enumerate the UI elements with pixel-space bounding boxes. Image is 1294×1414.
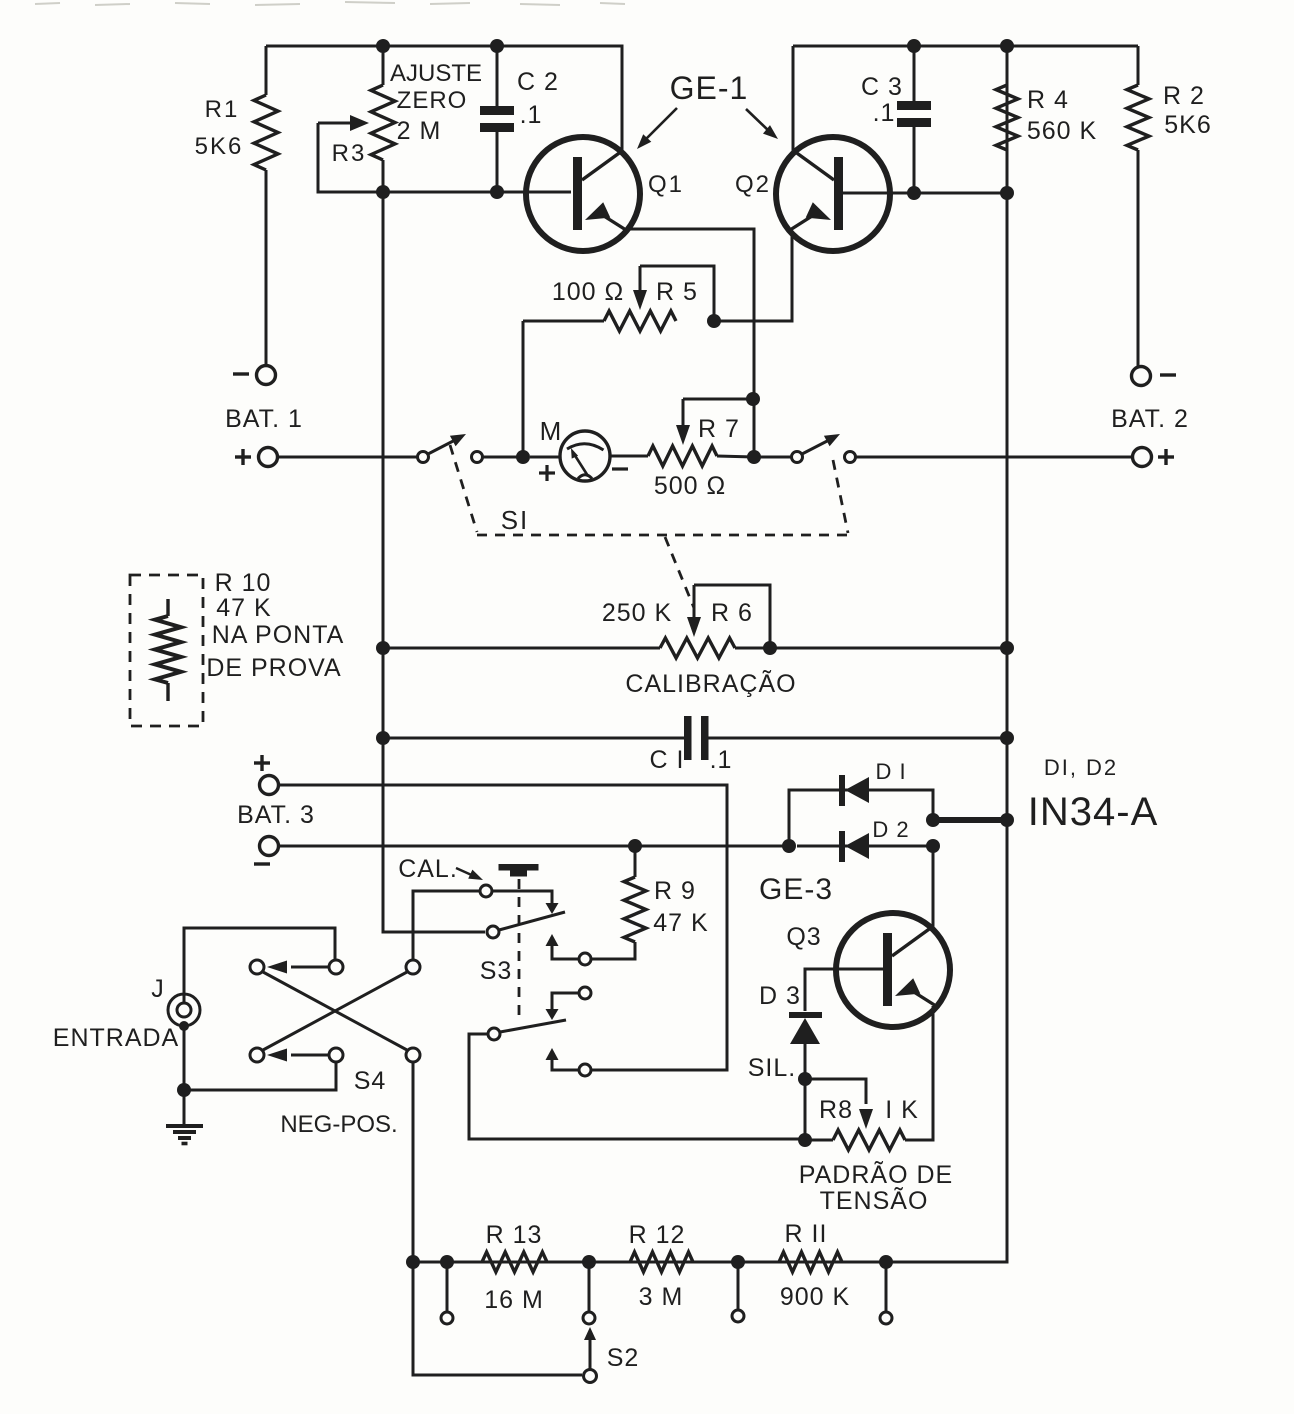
label C2 [517,68,559,96]
terminal BAT1 plus [259,448,278,467]
potentiometer R7 (500 ohm) [648,446,754,466]
wire Q2 base line to C3/R4 [843,192,1007,195]
label AJUSTE [390,60,482,87]
svg-text:C 3: C 3 [861,73,903,101]
wiper R7 [676,399,690,445]
switch S2 contact 1 [441,1312,453,1324]
switch S4 pole bottom [406,1048,420,1062]
label D3 [759,982,801,1010]
label R7 [698,415,740,443]
label R11 value [780,1283,850,1311]
switch S3 contact A1 [480,885,492,897]
node R11 left contact [731,1255,745,1269]
label S3 [480,957,513,985]
svg-text:3 M: 3 M [639,1283,684,1311]
svg-text:.1: .1 [520,101,543,129]
label R11 [785,1220,828,1248]
label C1 value [710,746,733,774]
svg-text:2 M: 2 M [397,117,442,145]
switch S4 pole top [406,960,420,974]
label R1 [205,96,240,123]
potentiometer R3 [371,46,395,191]
label SIL. [748,1054,796,1082]
wire Q3 emitter down [905,1006,933,1140]
wire S1 left to meter node [483,456,523,459]
node D2 right [926,839,940,853]
node R8 left [798,1133,812,1147]
svg-text:R3: R3 [332,140,367,167]
wire right bus vertical [413,46,1007,1262]
wire D3 to R8 left [804,1079,807,1140]
wire D1 branch up [789,790,840,846]
svg-text:R 10: R 10 [215,569,272,597]
svg-text:CAL.: CAL. [398,855,458,883]
resistor R4 [996,46,1018,193]
svg-text:M: M [540,416,563,446]
label CALIBRACAO [625,669,796,698]
svg-text:TENSÃO: TENSÃO [820,1186,929,1215]
label R3 [332,140,367,167]
svg-text:R 2: R 2 [1163,82,1205,110]
svg-text:Q2: Q2 [735,171,771,198]
wire S1 right to BAT2 plus [856,456,1133,459]
label minus BAT2 [1160,373,1176,376]
wire meter to R7 [610,455,648,458]
svg-text:.1: .1 [710,746,733,774]
resistor R8 (1K) [805,1130,905,1150]
resistor R13 (16M) [482,1252,547,1272]
wire R6 line left [383,647,660,650]
label R2 value [1164,111,1211,139]
node R7 right / main line [747,450,792,464]
svg-text:D I: D I [875,759,906,784]
wire R11 to right bus corner [842,1261,1007,1264]
label BAT. 3 [237,801,315,829]
node top rail / C2 [490,39,504,53]
switch S4 contact BL [250,1048,264,1062]
wire R11 contact stub [737,1262,740,1310]
meter M [560,431,610,481]
label Q1 [648,171,684,198]
label S2 [607,1344,640,1372]
svg-text:R8: R8 [819,1096,853,1124]
node R9 top [628,839,642,853]
label minus BAT1 [233,372,249,375]
wire BAT3 plus rail [279,785,727,1070]
switch S2 contact 2 [583,1312,595,1324]
label plus BAT2 [1158,449,1174,465]
node D1 branch [782,839,796,853]
svg-text:ENTRADA: ENTRADA [53,1024,179,1052]
svg-text:D 3: D 3 [759,982,801,1010]
wire ground node to S4 [184,1062,336,1090]
arrow GE-1 to Q2 [746,109,778,139]
svg-text:47 K: 47 K [216,594,271,622]
terminal BAT2 minus (R2) [1132,367,1151,386]
transistor Q3 [836,913,950,1027]
label R12 [629,1221,686,1249]
svg-text:D 2: D 2 [872,817,909,842]
label R13 [486,1221,543,1249]
wire Q2 emitter drop [714,231,792,321]
svg-text:S4: S4 [354,1067,387,1095]
wire S3 arm B to R8 line [469,1034,805,1139]
wire R6 right to bus [735,647,1007,650]
node right bus / R6 [1000,641,1014,655]
diode D2 [797,831,869,862]
node R13 left contact [440,1255,454,1269]
wiper R6 [687,585,701,637]
scan artifact top edge [35,2,625,5]
label C3 [861,73,903,101]
wire D2 to junction [869,845,933,848]
wire J sleeve to ground node [183,1026,186,1126]
resistor R5 (100 ohm) [523,311,676,457]
svg-text:5K6: 5K6 [195,133,244,160]
wire R13 contact stub [446,1262,449,1312]
svg-text:R 6: R 6 [711,599,753,627]
wire BAT1 plus to S1 left [278,456,418,459]
transistor Q1 [526,137,640,251]
label S4 [354,1067,387,1095]
box R10 dashed [130,575,203,726]
wire S4 cross down [263,972,407,1050]
node D3 bottom / R8 wiper [798,1072,812,1086]
wire C1 line right [708,737,1007,740]
wire S3 A1 arrow [492,891,559,914]
label R8 value [885,1096,919,1124]
node R3 bottom [376,185,390,199]
label CAL. [398,855,458,883]
svg-text:GE-3: GE-3 [759,873,833,906]
svg-text:S2: S2 [607,1344,640,1372]
jack J [168,994,200,1031]
svg-text:S3: S3 [480,957,513,985]
switch S1 right throw [845,452,856,463]
label R8 [819,1096,853,1124]
label R2 [1163,82,1205,110]
node R4 bottom / base node [1000,186,1014,200]
label 2M [397,117,442,145]
svg-text:PADRÃO DE: PADRÃO DE [799,1160,953,1189]
svg-text:R 13: R 13 [486,1221,543,1249]
svg-text:DE PROVA: DE PROVA [206,654,341,682]
label M [540,416,563,446]
svg-text:I K: I K [885,1096,919,1124]
wire C1 line left [383,737,686,740]
terminal BAT3 minus [260,837,279,856]
svg-text:GE-1: GE-1 [670,70,749,106]
svg-text:47 K: 47 K [653,909,708,937]
transistor Q2 [776,137,890,251]
switch S3 contact B1 [579,987,591,999]
label DE PROVA [206,654,341,682]
wire R13-R12 [547,1261,630,1264]
resistor R11 (900K) [779,1252,842,1272]
label Q2 [735,171,771,198]
node C1 line left [376,731,390,745]
label GE-1 [670,70,749,106]
diode D3 [789,1012,822,1079]
svg-text:900 K: 900 K [780,1283,850,1311]
svg-text:5K6: 5K6 [1164,111,1211,139]
wire rail left leg to S2 wiper [413,1262,582,1375]
wiper R8 [859,1109,873,1129]
svg-text:R 9: R 9 [654,877,696,905]
label D2 [872,817,909,842]
svg-text:560 K: 560 K [1027,117,1097,145]
node R6 line left [376,641,390,655]
wire Q1 emitter to R7 column [626,229,754,457]
label BAT. 1 [225,405,303,433]
label plus BAT3 [254,755,270,771]
label R4 [1027,86,1069,114]
terminal BAT1 minus (R1) [257,366,276,385]
terminal BAT2 plus [1133,448,1152,467]
switch S3 arm B [488,1020,566,1040]
node C2 bottom [490,185,504,199]
label 250K [602,599,672,627]
label ZERO [397,87,468,114]
wire rail R13 left [413,1261,482,1264]
potentiometer R6 (250K) [660,638,735,658]
switch S1 right pole [792,434,841,463]
wire R12-R11 [693,1261,779,1264]
wire S3 contact B2 arrow [546,1048,580,1070]
label R12 value [639,1283,684,1311]
capacitor C3 [897,46,931,193]
label R9 value [653,909,708,937]
wire S3 contact A2 arrow [546,934,580,959]
resistor R1 [254,46,278,365]
label ENTRADA [53,1024,179,1052]
switch S2 contact 4 [880,1312,892,1324]
svg-text:DI, D2: DI, D2 [1044,755,1118,780]
svg-text:R 7: R 7 [698,415,740,443]
switch S3 arm A [487,912,565,938]
label R9 [654,877,696,905]
label NA PONTA [212,621,345,649]
label plus BAT1 [235,449,251,465]
switch S3 contact A2 [579,953,591,965]
svg-text:500 Ω: 500 Ω [654,472,726,500]
svg-text:R1: R1 [205,96,240,123]
svg-text:Q1: Q1 [648,171,684,198]
svg-text:ZERO: ZERO [397,87,468,114]
svg-text:BAT. 1: BAT. 1 [225,405,303,433]
node R12 left contact [582,1255,596,1269]
label TENSAO [820,1186,929,1215]
label C2 value [520,101,543,129]
svg-text:BAT. 2: BAT. 2 [1111,405,1189,433]
label J [151,975,165,1003]
svg-text:100 Ω: 100 Ω [552,278,624,306]
label R5 [656,278,698,306]
switch S1 gang dashed outline [450,445,848,535]
label R4 value [1027,117,1097,145]
svg-text:R II: R II [785,1220,828,1248]
wire R6 wiper loop [694,585,770,648]
wire top rail left (R1/R3/C2 to Q1 collector) [266,46,622,152]
svg-text:250 K: 250 K [602,599,672,627]
svg-text:BAT. 3: BAT. 3 [237,801,315,829]
svg-text:C 2: C 2 [517,68,559,96]
dashed pointer S1 to R6 [665,537,694,608]
capacitor C2 [480,46,514,192]
node ground [177,1083,191,1097]
node right bus / 1N34 link [1000,813,1014,827]
label R6 [711,599,753,627]
resistor R2 [1127,46,1149,366]
resistor R12 (3M) [630,1252,693,1272]
label 1N34-A [1028,790,1159,834]
wire J tip to S4 [184,928,335,1004]
node top rail / R4 [1000,39,1014,53]
node top rail / C3 [907,39,921,53]
wire S4 arrow bottom [267,1049,329,1062]
svg-text:16 M: 16 M [484,1286,544,1314]
wire D1 to junction [869,790,933,820]
switch S4 contact TR [329,960,343,974]
node R11 right contact [879,1255,893,1269]
label R1 value [195,133,244,160]
wire S4 arrow top [267,961,329,974]
label D1, D2 [1044,755,1118,780]
wire R8 wiper loop [805,1079,866,1104]
wire top rail right (Q2 collector to C3/R4/R2) [793,46,1138,152]
node bottom rail left [406,1255,420,1269]
node top rail / R3 [376,39,390,53]
arrow CAL pointer [456,868,483,880]
resistor R10 (47K, probe) [155,599,181,701]
wire R7 wiper loop [683,398,753,401]
svg-text:Q3: Q3 [786,923,821,951]
svg-text:SI: SI [501,505,530,535]
terminal BAT3 plus [260,776,279,795]
svg-text:CALIBRAÇÃO: CALIBRAÇÃO [625,669,796,698]
pushbutton CAL [499,864,539,877]
capacitor C1 [684,716,709,760]
svg-text:NA PONTA: NA PONTA [212,621,345,649]
label C3 value [873,99,896,127]
svg-text:IN34-A: IN34-A [1028,790,1159,834]
wire R3 wiper return + Q1 base line [318,123,571,192]
label GE-3 [759,873,833,906]
wire 1N34 thick link [933,817,1007,823]
diode D1 [839,775,869,806]
label meter plus [539,465,555,481]
node meter left [516,450,530,464]
wire meter node to meter [530,456,560,459]
wire D junction down to Q3 collector [932,846,935,927]
svg-text:R 4: R 4 [1027,86,1069,114]
svg-text:.1: .1 [873,99,896,127]
label minus BAT3 [254,862,270,865]
switch S1 left pole [418,434,467,463]
label PADRAO DE [799,1160,953,1189]
label BAT. 2 [1111,405,1189,433]
label C1 [650,746,685,774]
label meter minus [612,467,628,470]
wiper R5 [633,266,647,310]
switch S4 contact BR [329,1048,343,1062]
wiper R3 [318,115,369,131]
svg-text:C I: C I [650,746,685,774]
svg-text:R 12: R 12 [629,1221,686,1249]
switch S3 contact B2 [579,1064,591,1076]
node right bus / C1 [1000,731,1014,745]
ground [166,1126,203,1144]
wire R5 wiper loop [640,266,714,321]
label D1 [875,759,906,784]
label 100 ohm [552,278,624,306]
arrow GE-1 to Q1 [637,108,677,149]
svg-text:AJUSTE: AJUSTE [390,60,482,87]
switch S1 left throw [472,452,483,463]
node 1N34 link left [926,813,940,827]
svg-text:J: J [151,975,165,1003]
switch S2 contact 3 [732,1310,744,1322]
switch S4 contact TL [250,960,264,974]
svg-text:SIL.: SIL. [748,1054,796,1082]
wire S3 B1 arrow [546,993,580,1020]
wire Q3 base line [805,969,883,1011]
label R13 value [484,1286,544,1314]
wire S4 pole bottom to rail [412,1062,415,1262]
wire S4 cross up [263,972,407,1050]
wire R11 right contact stub [885,1262,888,1312]
label 500 ohm [654,472,726,500]
svg-text:R 5: R 5 [656,278,698,306]
node C3 bottom [907,186,921,200]
label R10 [215,569,272,597]
wire BAT3 minus rail [279,845,789,848]
node R7 loop / Q1 emitter [746,392,760,406]
wire R3 node long vertical [383,192,485,932]
resistor R9 (47K) [591,846,646,959]
wire S4 pole to S3 contact A1 [413,891,479,960]
label S1 [501,505,530,535]
switch S2 wiper [584,1327,597,1383]
node R5 right / Q2 emitter [707,314,721,328]
label NEG-POS. [280,1111,397,1138]
node R6 loop [763,641,777,655]
wire R12 contact stub [588,1262,591,1312]
svg-text:NEG-POS.: NEG-POS. [280,1111,397,1138]
label R10 value [216,594,271,622]
label Q3 [786,923,821,951]
dashed gang S3 [518,879,521,1022]
